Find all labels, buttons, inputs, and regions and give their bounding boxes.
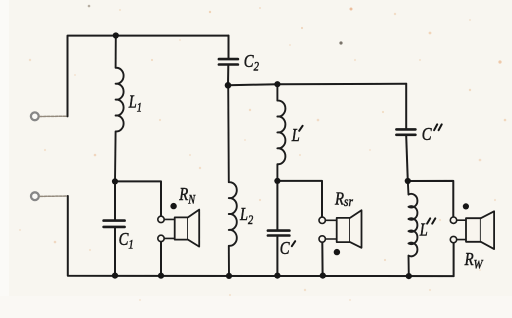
node RN bottom	[158, 273, 164, 279]
wire node A to speaker RN	[115, 181, 161, 216]
wire RN bottom to rail	[160, 242, 162, 276]
svg-text:L: L	[291, 124, 300, 145]
node L2 bottom	[226, 273, 232, 279]
capacitor C1	[114, 181, 116, 275]
node D	[405, 178, 411, 184]
wire node D to speaker RW	[408, 181, 454, 217]
capacitor C2	[227, 36, 230, 86]
speaker Rsr	[319, 217, 325, 223]
wire left-top corner to top rail	[68, 36, 229, 117]
svg-text:C: C	[280, 237, 291, 258]
node L1 top	[113, 32, 119, 38]
terminal T1 (upper input)	[31, 112, 39, 120]
polarity dot RW	[463, 203, 469, 209]
wire RW bottom to rail	[453, 243, 455, 276]
wire T2 lead	[40, 195, 68, 197]
wire Rsr bottom to rail	[321, 242, 323, 275]
polarity dot RN	[170, 203, 176, 209]
capacitor C''	[406, 84, 408, 181]
node C' bottom	[274, 273, 280, 279]
inductor L1	[115, 36, 124, 182]
node L' top	[274, 81, 280, 87]
node A	[112, 178, 118, 184]
wire mid rail	[228, 84, 406, 86]
prime of L'	[299, 126, 302, 131]
prime of C'	[292, 241, 295, 246]
node B (C2 bottom)	[225, 82, 232, 89]
terminal T2 (lower input)	[31, 192, 39, 200]
double prime of L''	[427, 218, 435, 223]
node Rsr bottom	[320, 273, 326, 279]
wire node C to speaker Rsr	[277, 181, 322, 217]
double prime of C''	[434, 124, 442, 130]
inductor L'	[277, 84, 285, 181]
speaker RW	[450, 217, 456, 223]
inductor L''	[408, 181, 418, 276]
node C	[274, 178, 280, 184]
svg-text:L: L	[419, 219, 428, 240]
inductor L2	[228, 85, 237, 275]
svg-text:C: C	[422, 124, 433, 145]
wire left-bottom corner to bottom rail	[68, 196, 454, 276]
speaker RN	[158, 216, 164, 222]
node L'' bottom	[406, 273, 412, 279]
wire T1 lead	[40, 115, 68, 117]
node C1 bottom	[112, 273, 118, 279]
capacitor C'	[276, 181, 278, 276]
polarity dot Rsr	[334, 249, 340, 255]
